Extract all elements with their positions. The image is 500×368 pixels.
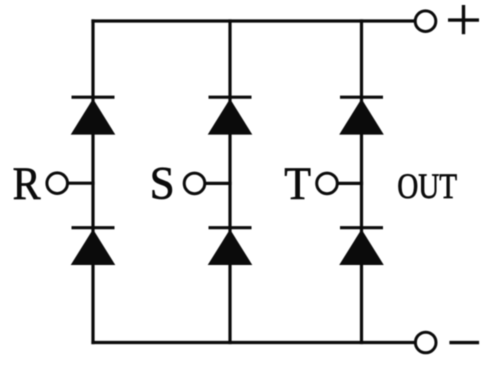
svg-text:R: R (13, 157, 41, 210)
svg-text:T: T (284, 158, 311, 210)
svg-text:S: S (150, 157, 175, 209)
svg-text:OUT: OUT (397, 167, 457, 207)
